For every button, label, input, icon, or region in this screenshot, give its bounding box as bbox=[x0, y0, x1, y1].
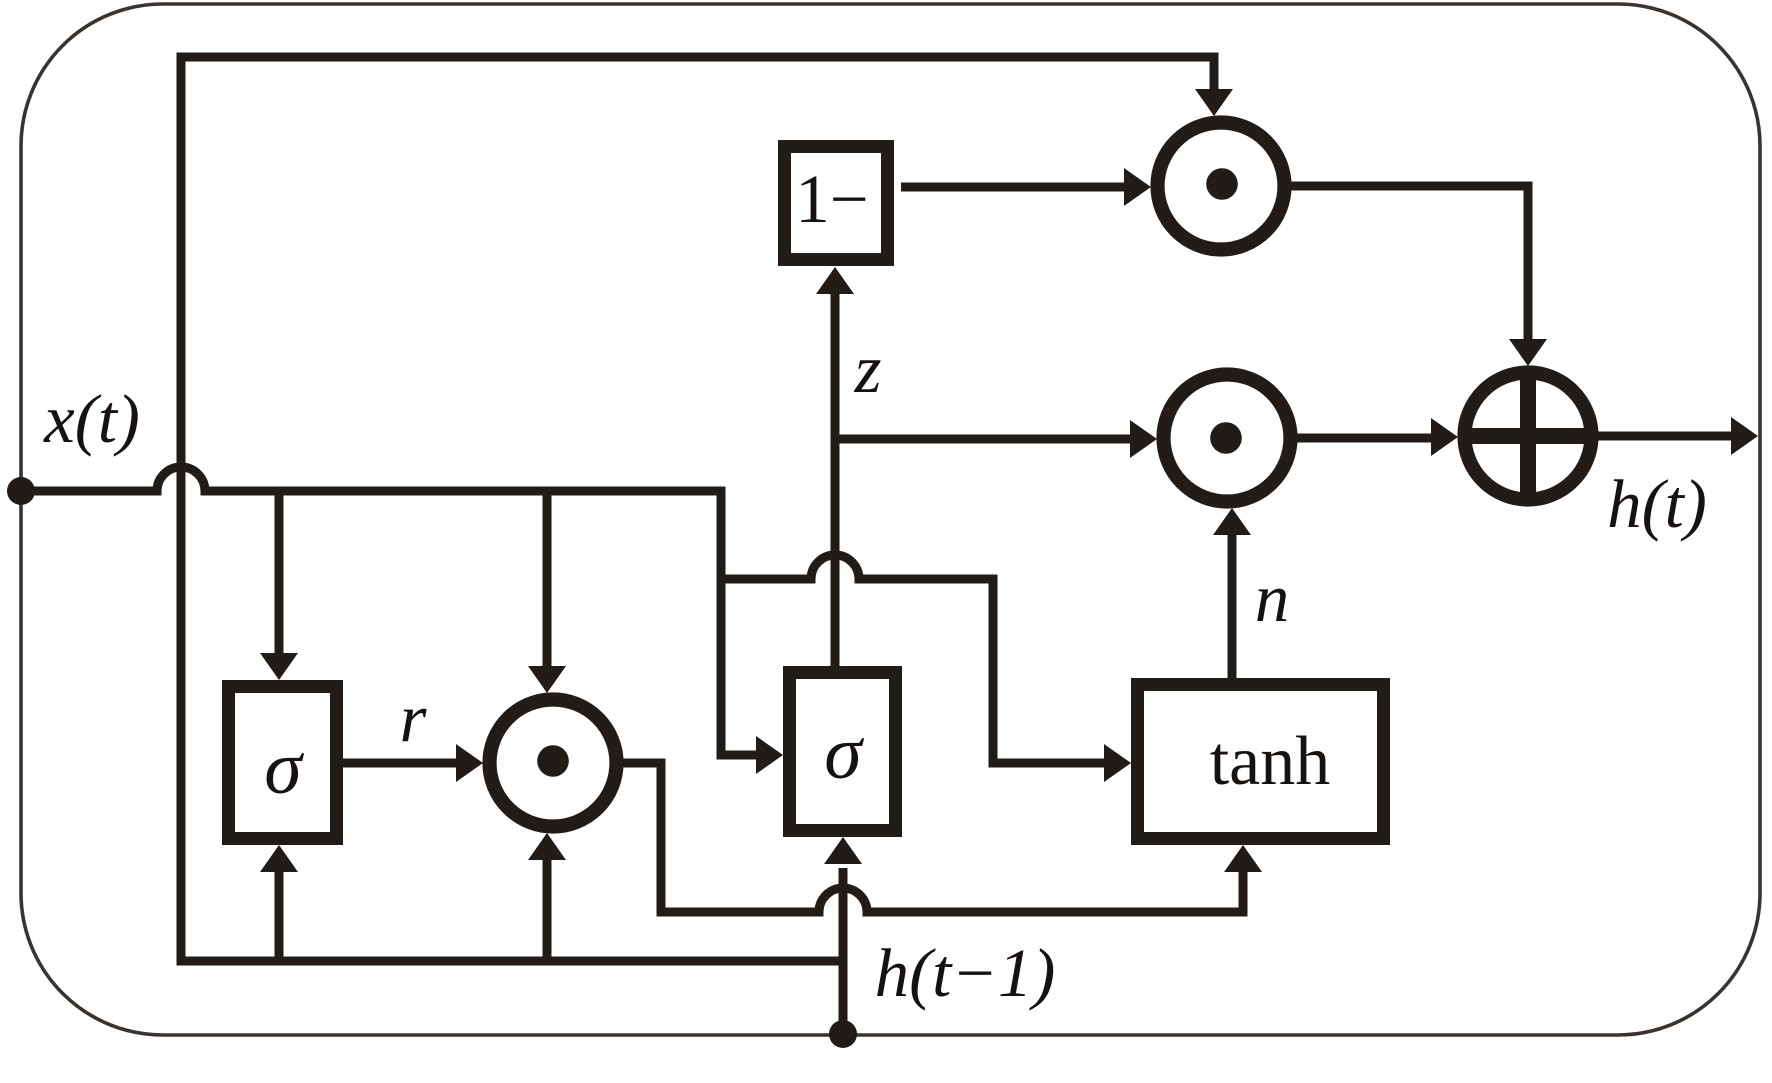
arrow into mult z circle left bbox=[1130, 420, 1157, 458]
box sigma r gate bbox=[229, 687, 337, 839]
wire h(t-1) up into mult r circle bottom bbox=[543, 859, 552, 961]
svg-text:σ: σ bbox=[264, 726, 304, 810]
mult z circle dot bbox=[1210, 422, 1242, 454]
svg-text:tanh: tanh bbox=[1210, 723, 1331, 800]
svg-text:r: r bbox=[400, 680, 428, 756]
wire h(t-1) bottom distribution bbox=[181, 57, 1214, 961]
arrow into sigma r bottom bbox=[260, 845, 298, 872]
wire x(t) branch down to mult r circle bbox=[543, 491, 552, 671]
wire h(t-1) riser from bottom dot bbox=[839, 868, 848, 1034]
arrow into sigma z left bbox=[756, 736, 783, 774]
arrow into tanh left bbox=[1104, 744, 1131, 782]
arrow into 1-minus box bottom bbox=[816, 267, 854, 294]
wire mult 1-z output to adder top bbox=[1286, 186, 1528, 340]
mult r circle bbox=[490, 700, 617, 827]
box 1-minus bbox=[785, 147, 888, 260]
node h(t-1) input dot bbox=[829, 1020, 857, 1048]
svg-text:x(t): x(t) bbox=[43, 381, 140, 457]
wire mult z output to adder left bbox=[1288, 434, 1432, 443]
svg-text:z: z bbox=[854, 331, 882, 407]
arrow h(t) output bbox=[1731, 417, 1758, 455]
wire z branch to mult z circle bbox=[835, 435, 1131, 444]
arrow into adder top bbox=[1509, 339, 1547, 366]
wire n from tanh top to mult z circle bottom bbox=[1228, 534, 1237, 678]
arrow into sigma r top bbox=[260, 653, 298, 680]
mult 1-z circle bbox=[1158, 123, 1285, 250]
wire h(t-1) up into sigma r bottom bbox=[275, 871, 284, 961]
arrow into tanh bottom bbox=[1224, 845, 1262, 872]
arrow into mult 1-z circle left bbox=[1124, 168, 1151, 206]
adder cross horizontal bbox=[1471, 428, 1585, 444]
wire x(t) input horizontal with hop over h(t-1) vertical bbox=[20, 467, 774, 755]
arrow into mult r circle top bbox=[528, 666, 566, 693]
arrow into sigma z bottom bbox=[824, 837, 862, 864]
svg-text:h(t): h(t) bbox=[1607, 466, 1707, 542]
wire z from sigma z up to 1-minus box bbox=[831, 293, 840, 666]
wire 1-minus output to mult 1-z circle bbox=[901, 183, 1125, 192]
box sigma z gate bbox=[790, 673, 896, 831]
svg-text:1−: 1− bbox=[795, 161, 868, 237]
arrow into mult r circle left bbox=[456, 744, 483, 782]
wire x(t) branch down to sigma r gate bbox=[275, 491, 284, 658]
box tanh bbox=[1138, 685, 1384, 839]
svg-text:h(t−1): h(t−1) bbox=[875, 935, 1056, 1011]
mult r circle dot bbox=[537, 745, 569, 777]
wire x(t) branch to tanh with hop over z vertical bbox=[721, 555, 1110, 763]
node x(t) input dot bbox=[7, 477, 35, 505]
mult 1-z circle dot bbox=[1206, 168, 1238, 200]
wire r mult output to tanh bottom with hop over h(t-1) riser bbox=[620, 763, 1243, 912]
arrow into mult 1-z circle top bbox=[1195, 89, 1233, 116]
mult z circle bbox=[1164, 375, 1291, 502]
svg-text:σ: σ bbox=[824, 711, 864, 795]
svg-text:n: n bbox=[1255, 560, 1290, 636]
arrow into mult z circle bottom bbox=[1213, 508, 1251, 535]
adder cross vertical bbox=[1520, 379, 1536, 493]
wire h(t) output from adder bbox=[1592, 432, 1732, 441]
wire sigma r output to mult r circle bbox=[343, 759, 457, 768]
arrow into adder left bbox=[1431, 418, 1458, 456]
adder circle bbox=[1465, 373, 1592, 500]
arrow into mult r circle bottom bbox=[528, 833, 566, 860]
